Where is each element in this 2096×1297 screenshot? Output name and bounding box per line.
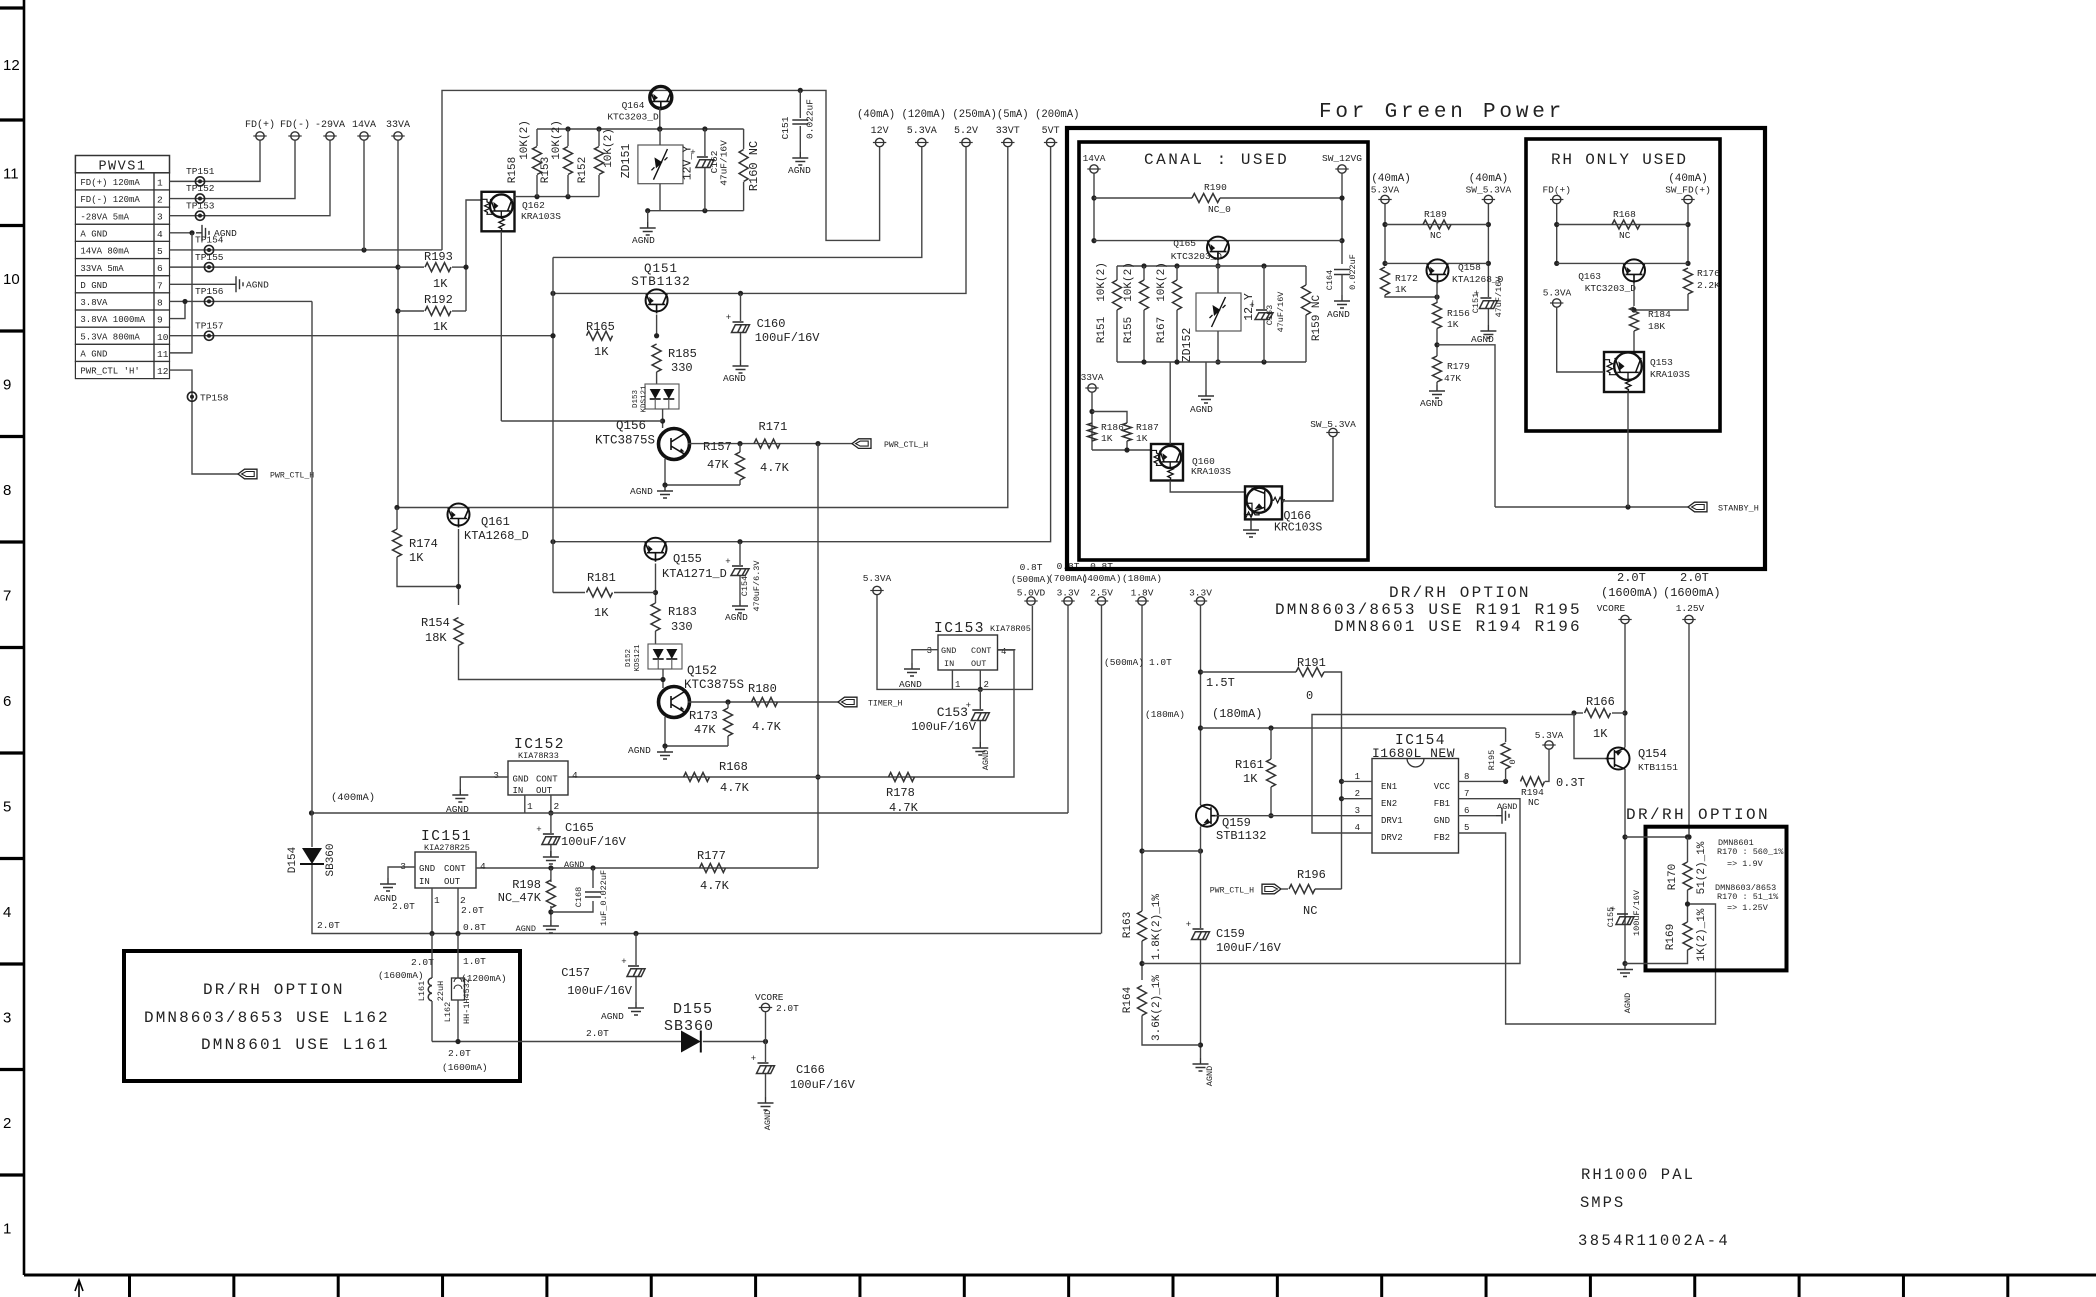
svg-text:R185: R185 (668, 347, 697, 361)
resistor R168 NC rh (1612, 220, 1640, 229)
wire Q155 emitter down (655, 564, 657, 604)
resistor R177 (700, 864, 726, 873)
svg-text:33VA 5mA: 33VA 5mA (80, 264, 124, 274)
svg-text:R155: R155 (1123, 317, 1135, 343)
svg-text:DRV2: DRV2 (1381, 833, 1403, 843)
svg-text:Q161: Q161 (481, 515, 510, 529)
wire divider top rail canal (1117, 265, 1306, 267)
svg-text:3.8VA 1000mA: 3.8VA 1000mA (80, 315, 145, 325)
svg-text:51(2)_1%: 51(2)_1% (1696, 841, 1708, 894)
wire 5.3VA col (552, 257, 554, 592)
ground AGND under R179 (1429, 385, 1445, 398)
svg-text:Q153: Q153 (1650, 357, 1673, 368)
svg-text:KDS121: KDS121 (634, 644, 642, 672)
svg-text:10K(2): 10K(2) (603, 128, 615, 168)
resistor R151 10K(2) (1116, 266, 1118, 280)
svg-text:R177: R177 (697, 849, 726, 863)
svg-text:AGND: AGND (1327, 309, 1350, 320)
svg-text:Q158: Q158 (1458, 262, 1481, 273)
ground AGND under C155 (1617, 964, 1633, 977)
wire IC153 pin3 AGND (912, 650, 938, 663)
svg-text:C168: C168 (574, 887, 584, 907)
svg-text:330: 330 (671, 361, 693, 375)
svg-text:330: 330 (671, 620, 693, 634)
capacitor C151 0.022uF (799, 90, 801, 118)
svg-text:IN: IN (944, 659, 954, 669)
svg-text:FD(-) 120mA: FD(-) 120mA (80, 195, 140, 205)
transistor Q162 KRA103S (482, 192, 515, 232)
svg-text:100uF/16V: 100uF/16V (561, 835, 627, 849)
svg-text:2.0T: 2.0T (1680, 571, 1709, 585)
svg-text:EN1: EN1 (1381, 782, 1397, 792)
wire divider top rail (537, 128, 744, 130)
svg-text:R180: R180 (748, 682, 777, 696)
resistor R185 (652, 344, 661, 372)
svg-text:14VA: 14VA (1083, 153, 1106, 164)
svg-text:6: 6 (1464, 806, 1469, 816)
dual diode D152 KDS121 (648, 644, 682, 669)
ground AGND under C159 (1193, 1058, 1209, 1071)
svg-text:R189: R189 (1424, 209, 1447, 220)
svg-text:0: 0 (1508, 759, 1518, 764)
svg-text:R196: R196 (1297, 868, 1326, 882)
svg-text:C165: C165 (565, 821, 594, 835)
svg-text:NC: NC (1619, 230, 1631, 241)
svg-text:R166: R166 (1586, 695, 1615, 709)
svg-text:4: 4 (3, 904, 11, 921)
svg-text:TIMER_H: TIMER_H (868, 700, 902, 709)
ground AGND under C153 (972, 742, 988, 755)
wire IC151 pin1 (431, 888, 433, 934)
wire 2.5V col down (1101, 606, 1103, 934)
svg-text:1K: 1K (1243, 772, 1258, 786)
svg-text:(1600mA): (1600mA) (442, 1062, 488, 1073)
svg-text:R152: R152 (577, 157, 589, 183)
resistor R181 (553, 592, 585, 594)
svg-text:STB1132: STB1132 (1216, 829, 1266, 843)
ground AGND under C164 (1334, 295, 1350, 308)
resistor R164 3.6K(2)_1% (1138, 986, 1147, 1016)
svg-text:4.7K: 4.7K (720, 781, 750, 795)
svg-text:33VA: 33VA (386, 120, 410, 131)
svg-text:HH-1H4532: HH-1H4532 (462, 978, 472, 1024)
svg-text:KTC3875S: KTC3875S (595, 434, 655, 448)
svg-text:1.0T: 1.0T (1149, 657, 1172, 668)
svg-text:2.0T: 2.0T (317, 920, 340, 931)
wire IC152 pin1 (524, 795, 526, 813)
svg-text:R171: R171 (759, 420, 788, 434)
svg-text:7: 7 (3, 588, 11, 605)
resistor R190 NC_0 (1094, 197, 1192, 199)
wire IC152 pin3 AGND (460, 777, 508, 789)
svg-text:2.2K: 2.2K (1697, 280, 1720, 291)
svg-text:DR/RH OPTION: DR/RH OPTION (1389, 584, 1531, 602)
svg-text:1uF_0.022uF: 1uF_0.022uF (599, 870, 609, 926)
svg-text:2: 2 (554, 801, 560, 812)
svg-text:3: 3 (3, 1010, 11, 1027)
svg-text:12: 12 (157, 366, 169, 377)
svg-text:NC: NC (1430, 230, 1442, 241)
svg-text:C157: C157 (561, 966, 590, 980)
svg-text:DR/RH OPTION: DR/RH OPTION (1626, 806, 1770, 824)
wire R186 R187 bottoms to Q160 (1092, 449, 1151, 451)
box Green Power outer (1067, 128, 1765, 569)
wire Q162 collector to divider (515, 196, 600, 198)
wire pin4 A GND (170, 232, 193, 234)
flag STANBY_H (1688, 502, 1707, 512)
svg-text:KIA78R33: KIA78R33 (518, 751, 559, 761)
svg-text:C159: C159 (1216, 927, 1245, 941)
svg-text:D153: D153 (632, 390, 640, 409)
wire R168rh rail (1556, 204, 1558, 263)
svg-text:AGND: AGND (725, 612, 748, 623)
svg-text:8: 8 (3, 482, 11, 499)
svg-text:DR/RH OPTION: DR/RH OPTION (203, 981, 345, 999)
svg-text:1K: 1K (433, 320, 448, 334)
resistor R153 (567, 129, 569, 146)
svg-text:SB360: SB360 (664, 1018, 714, 1035)
svg-text:14VA 80mA: 14VA 80mA (80, 247, 129, 257)
svg-text:R170 : 560_1%: R170 : 560_1% (1717, 847, 1784, 857)
svg-text:R154: R154 (421, 616, 450, 630)
svg-text:5.3VA 800mA: 5.3VA 800mA (80, 332, 140, 342)
svg-text:3854R11002A-4: 3854R11002A-4 (1578, 1232, 1730, 1250)
svg-text:D154: D154 (287, 846, 299, 873)
svg-text:5.2V: 5.2V (954, 126, 978, 137)
svg-text:100uF/16V: 100uF/16V (790, 1078, 856, 1092)
capacitor C153 100uF/16V (979, 689, 981, 709)
svg-text:2.0T: 2.0T (392, 901, 415, 912)
svg-text:(1600mA): (1600mA) (378, 970, 424, 981)
svg-text:A GND: A GND (80, 229, 107, 239)
svg-text:KTC3203_D: KTC3203_D (607, 112, 659, 123)
transistor Q158 KTA1268_D (1427, 259, 1449, 283)
svg-text:CONT: CONT (536, 775, 558, 785)
svg-text:1K: 1K (594, 345, 609, 359)
svg-text:C151: C151 (780, 116, 791, 139)
svg-text:SMPS: SMPS (1580, 1194, 1625, 1212)
wire IC151 pin4 rail (476, 867, 818, 869)
wire pin2 to FD(-) (170, 141, 296, 199)
transistor Q154 KTB1151 (1574, 713, 1608, 759)
svg-text:IN: IN (419, 877, 430, 887)
wire ZD151 bottom rail (648, 210, 744, 212)
svg-text:+: + (725, 557, 730, 567)
ground AGND under Q152 (657, 746, 673, 759)
ground AGND under R198 (543, 920, 559, 933)
svg-text:8: 8 (157, 297, 163, 308)
svg-text:=> 1.25V: => 1.25V (1727, 903, 1769, 913)
svg-text:1K: 1K (1136, 433, 1148, 444)
svg-text:Q151: Q151 (644, 262, 678, 276)
ground AGND IC154 pin6 (1496, 808, 1509, 824)
svg-text:5.3VA: 5.3VA (907, 126, 937, 137)
resistor R157 (739, 444, 741, 452)
svg-text:R172: R172 (1395, 273, 1418, 284)
connector PWVS1 (75, 156, 169, 173)
svg-text:14VA: 14VA (352, 120, 376, 131)
svg-text:KRA103S: KRA103S (1650, 369, 1690, 380)
svg-text:R158: R158 (507, 157, 519, 183)
svg-text:+: + (621, 957, 626, 967)
resistor R187 1K (1092, 412, 1127, 424)
wire Q166 right to SW_5.3VA (1282, 437, 1333, 501)
svg-text:TP158: TP158 (200, 393, 229, 404)
wire Q153 to STANBY (1627, 392, 1629, 507)
svg-text:R190: R190 (1204, 182, 1227, 193)
wire 3.8VA drop (311, 301, 313, 847)
resistor R193 (398, 266, 424, 268)
svg-text:A GND: A GND (80, 350, 107, 360)
resistor R152 (598, 129, 600, 146)
resistor R179 47K (1433, 356, 1442, 382)
capacitor C162 47uF/16V (704, 129, 706, 156)
svg-text:TP153: TP153 (186, 201, 215, 212)
svg-text:PWVS1: PWVS1 (98, 159, 146, 174)
svg-text:(500mA): (500mA) (1011, 574, 1051, 585)
svg-text:3: 3 (493, 770, 499, 781)
svg-text:KRA103S: KRA103S (1191, 466, 1231, 477)
svg-text:2: 2 (3, 1115, 11, 1132)
svg-text:1: 1 (955, 680, 960, 690)
transistor Q164 KTC3203_D (650, 86, 672, 110)
svg-text:R192: R192 (424, 293, 453, 307)
svg-text:C154: C154 (740, 576, 750, 596)
ground AGND pin4 (196, 225, 209, 241)
svg-text:5.3VA: 5.3VA (1535, 730, 1564, 741)
svg-text:4: 4 (1001, 647, 1006, 657)
svg-text:100uF/16V: 100uF/16V (755, 331, 821, 345)
svg-text:For Green Power: For Green Power (1319, 101, 1565, 124)
capacitor C166 100uF/16V (765, 1042, 767, 1063)
wire pin9 step (170, 301, 186, 318)
wire 33VT rail vertical x397 (396, 508, 398, 530)
svg-text:AGND: AGND (630, 486, 653, 497)
wire 400mA rail (312, 812, 1069, 814)
svg-text:GND: GND (1434, 816, 1450, 826)
svg-text:NC: NC (1528, 797, 1540, 808)
dual diode D153 KDS121 (645, 384, 679, 409)
resistor R196 NC (1262, 884, 1281, 894)
svg-text:10: 10 (3, 271, 20, 288)
svg-text:VCORE: VCORE (755, 992, 784, 1003)
wire Q152 emitter AGND (665, 717, 728, 746)
ground AGND IC152 (452, 789, 468, 802)
svg-text:+: + (536, 825, 541, 835)
ground AGND IC151 (380, 878, 396, 891)
svg-text:4: 4 (572, 770, 578, 781)
svg-text:100uF/16V: 100uF/16V (911, 720, 977, 734)
svg-text:R191: R191 (1297, 656, 1326, 670)
svg-text:1K: 1K (594, 606, 609, 620)
svg-text:ZD151: ZD151 (620, 144, 633, 179)
svg-text:C160: C160 (757, 317, 786, 331)
ground AGND pin7 (230, 276, 243, 292)
wire Q152 collector TIMER rail (688, 701, 838, 703)
wire 3.3V second col down (1200, 606, 1202, 806)
capacitor C157 100uF/16V (633, 931, 638, 936)
svg-text:GND: GND (419, 864, 435, 874)
svg-text:(400mA): (400mA) (331, 792, 375, 804)
wire Q151 emitter (656, 315, 658, 336)
svg-text:AGND: AGND (1471, 334, 1494, 345)
resistor R163 1.8K(2)_1% (1138, 911, 1147, 941)
resistor R158 (536, 129, 538, 146)
ground AGND under C151 (792, 152, 808, 165)
capacitor C164 0.022uF (1334, 270, 1350, 275)
svg-text:D152: D152 (625, 649, 633, 667)
wire Q164 base drop (659, 108, 661, 129)
svg-text:47K: 47K (1444, 373, 1461, 384)
svg-text:L161: L161 (417, 981, 427, 1001)
svg-text:NC_47K: NC_47K (498, 891, 542, 905)
svg-text:KRC103S: KRC103S (1274, 522, 1322, 535)
svg-text:GND: GND (513, 775, 529, 785)
svg-text:KDS121: KDS121 (641, 385, 649, 413)
wire pin12 PWR_CTL (170, 370, 239, 474)
svg-text:(40mA): (40mA) (1371, 173, 1411, 185)
svg-text:R168: R168 (719, 760, 748, 774)
wire R189 rail (1384, 204, 1386, 266)
svg-text:D155: D155 (673, 1001, 713, 1018)
wire Q160 collector up to divider rail (1169, 362, 1171, 444)
svg-text:IN: IN (513, 786, 524, 796)
resistor R172 1K (1381, 267, 1390, 295)
svg-text:1: 1 (527, 801, 533, 812)
svg-text:10K(2): 10K(2) (1123, 262, 1135, 302)
wire Q160 bottom to Q166 (1170, 481, 1245, 493)
svg-text:=> 1.9V: => 1.9V (1727, 859, 1764, 869)
svg-text:DMN8603/8653 USE R191 R195: DMN8603/8653 USE R191 R195 (1275, 601, 1582, 619)
svg-text:R170: R170 (1667, 864, 1679, 890)
wire Q163 collector rail (1557, 262, 1688, 264)
resistor R171 (754, 439, 780, 448)
wire pin5 14VA rail (170, 249, 443, 251)
wire Q156 collector R171 rail (688, 443, 852, 445)
svg-text:1K: 1K (409, 551, 424, 565)
wire 180mA rail (1201, 727, 1506, 729)
resistor R184 18K (1630, 307, 1639, 331)
svg-text:TP154: TP154 (195, 235, 224, 246)
svg-text:5.3VA: 5.3VA (1371, 185, 1400, 196)
svg-text:4.7K: 4.7K (752, 720, 782, 734)
box DR/RH right (1646, 827, 1787, 971)
capacitor C160 100uF/16V (738, 291, 743, 296)
svg-text:SW_12VG: SW_12VG (1322, 153, 1362, 164)
svg-text:FB2: FB2 (1434, 833, 1450, 843)
svg-text:R151: R151 (1096, 316, 1108, 343)
transistor Q160 KRA103S (1151, 444, 1183, 481)
svg-text:0.3T: 0.3T (1556, 776, 1585, 790)
resistor R180 (752, 698, 778, 707)
svg-text:R161: R161 (1235, 758, 1264, 772)
capacitor C168 1uF_0.022uF (592, 868, 594, 888)
svg-text:10K(2): 10K(2) (519, 120, 531, 160)
svg-text:Q156: Q156 (616, 419, 646, 433)
wire GND pin6 AGND (1459, 815, 1497, 817)
wire Q158 collector rail (1385, 262, 1488, 264)
svg-text:1K: 1K (1593, 727, 1608, 741)
wire IC152 pin2 (550, 795, 552, 813)
svg-text:0.022uF: 0.022uF (1348, 254, 1358, 290)
svg-text:5: 5 (3, 799, 11, 816)
wire SW_12VG col (1341, 174, 1343, 265)
wire 1.8V to 3.3V bridge (1142, 850, 1201, 852)
svg-text:AGND: AGND (246, 279, 269, 290)
svg-text:C164: C164 (1325, 270, 1335, 290)
svg-text:ZD152: ZD152 (1181, 328, 1194, 363)
svg-text:DRV1: DRV1 (1381, 816, 1403, 826)
svg-text:470uF/6.3V: 470uF/6.3V (752, 560, 762, 612)
svg-text:VCC: VCC (1434, 782, 1451, 792)
wire Q161 base down (458, 529, 460, 605)
svg-text:R179: R179 (1447, 361, 1470, 372)
svg-text:2.0T: 2.0T (776, 1003, 799, 1014)
svg-text:47K: 47K (694, 723, 716, 737)
svg-text:AGND: AGND (1420, 398, 1443, 409)
svg-text:C166: C166 (796, 1063, 825, 1077)
svg-text:AGND: AGND (564, 860, 584, 870)
resistor R183 (651, 603, 660, 631)
wire IC153 pin1 (951, 670, 953, 689)
svg-text:4.7K: 4.7K (700, 879, 730, 893)
box CANAL USED (1079, 142, 1368, 560)
svg-text:FD(+): FD(+) (245, 119, 275, 131)
svg-text:R165: R165 (586, 320, 615, 334)
wire R156 bottom node (1436, 329, 1438, 357)
svg-text:TP156: TP156 (195, 286, 224, 297)
svg-text:(500mA): (500mA) (1104, 657, 1144, 668)
svg-text:2: 2 (157, 195, 163, 206)
svg-text:PWR_CTL 'H': PWR_CTL 'H' (80, 367, 139, 377)
svg-text:AGND: AGND (899, 679, 922, 690)
svg-text:6: 6 (157, 263, 163, 274)
ground AGND under Q156 (657, 485, 673, 498)
svg-text:AGND: AGND (601, 1011, 624, 1022)
svg-text:FD(-): FD(-) (280, 119, 310, 131)
svg-text:C155: C155 (1606, 907, 1616, 927)
wire IC153 pin2 OUT node (979, 670, 981, 689)
svg-text:AGND: AGND (1497, 802, 1517, 812)
svg-text:47uF/16V: 47uF/16V (1276, 291, 1286, 333)
svg-text:2: 2 (984, 680, 989, 690)
wire Q162 line to Q156 base (501, 420, 662, 422)
wire PWR_CTL vertical (817, 444, 819, 868)
svg-text:100uF/16V: 100uF/16V (1632, 889, 1642, 936)
svg-text:10K(2): 10K(2) (1156, 262, 1168, 302)
svg-text:1.5T: 1.5T (1206, 676, 1235, 690)
wire Q165 base drop (1217, 261, 1219, 266)
svg-text:R169: R169 (1665, 924, 1677, 950)
svg-text:KTC3875S: KTC3875S (684, 678, 744, 692)
svg-text:NC: NC (1303, 904, 1317, 918)
svg-text:6: 6 (3, 693, 11, 710)
svg-text:R181: R181 (587, 571, 616, 585)
wire 5VT stair (553, 147, 1051, 542)
transistor Q163 KTC3203_D (1623, 259, 1645, 283)
capacitor C165 100uF/16V (550, 813, 552, 833)
resistor R194 NC (1521, 777, 1545, 786)
svg-text:RH ONLY USED: RH ONLY USED (1551, 151, 1688, 169)
svg-text:KTC3203_D: KTC3203_D (1585, 283, 1637, 294)
svg-text:4.7K: 4.7K (760, 461, 790, 475)
svg-text:PWR_CTL_H: PWR_CTL_H (884, 441, 928, 450)
resistor R198 NC_47K (550, 868, 552, 882)
wire 14VA drop (363, 141, 365, 250)
svg-text:FD(+): FD(+) (1542, 185, 1571, 196)
resistor R168 (684, 773, 710, 782)
resistor R173 (727, 702, 729, 708)
